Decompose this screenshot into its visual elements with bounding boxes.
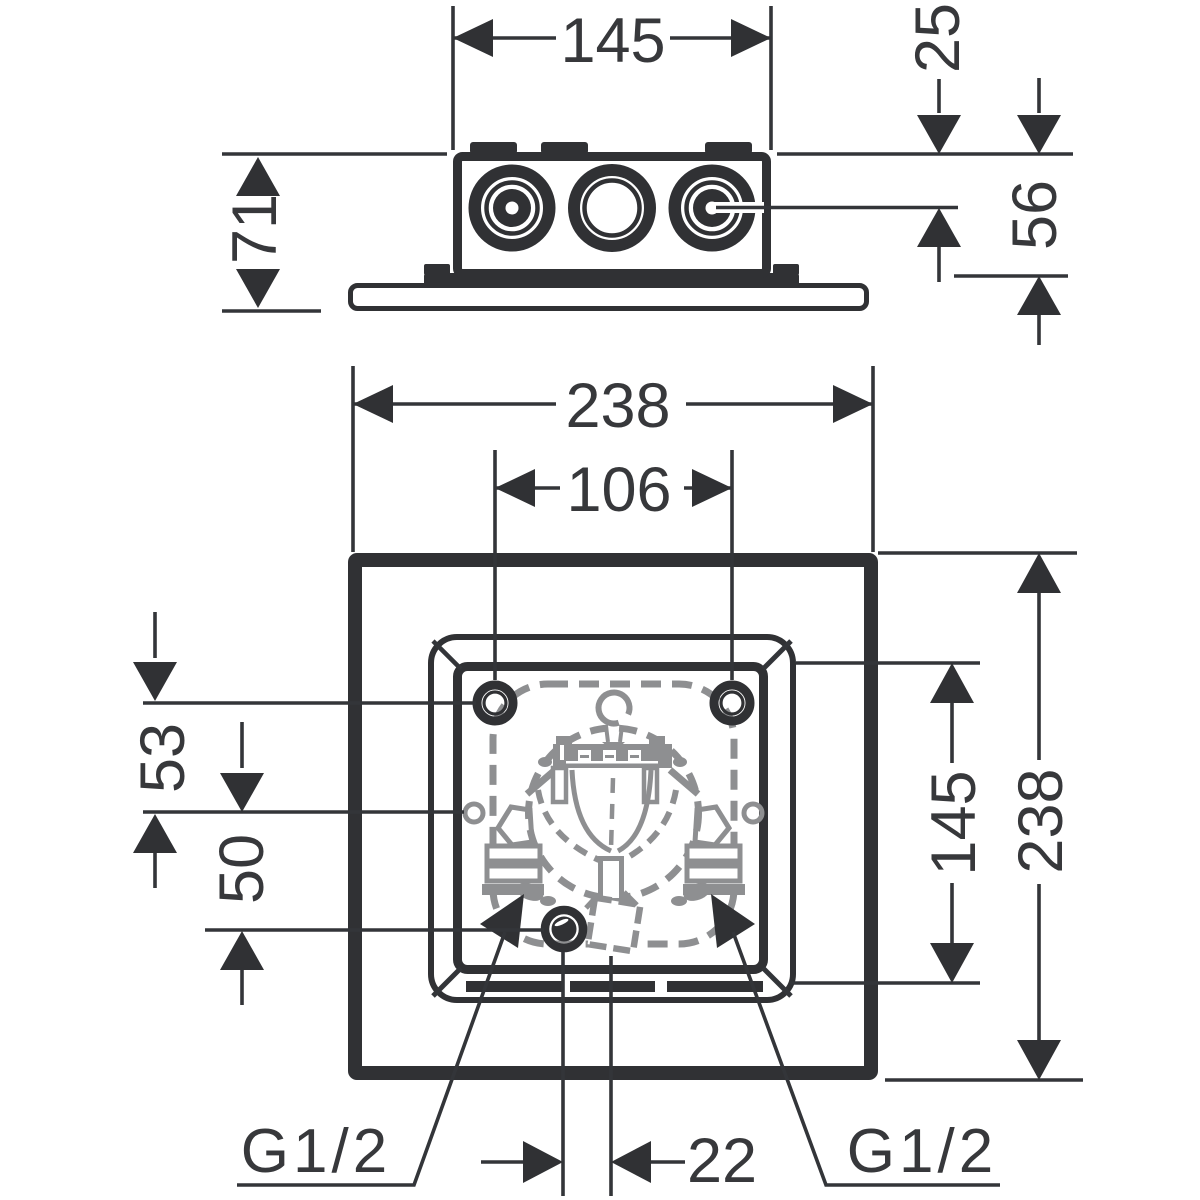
dimension 145 right arrow down	[930, 943, 974, 983]
SIDE VIEW	[220, 3, 1073, 345]
plaster box outer contour	[431, 637, 793, 1000]
dimension 50 arrow down	[220, 773, 264, 812]
dimension 53 lower stem	[153, 853, 157, 888]
dimension 238 top line	[353, 402, 873, 406]
left valve pentagon	[498, 807, 532, 845]
extension line right of 145	[769, 6, 773, 150]
right valve circle	[744, 804, 762, 822]
stem below small circle	[606, 726, 622, 742]
dimension 53 upper stem	[153, 612, 157, 658]
dimension 238 arrow right	[833, 385, 873, 423]
svg-text:238: 238	[565, 371, 670, 441]
dimension 22 arrow right-pointing	[523, 1141, 563, 1183]
crossbar	[553, 744, 672, 768]
middle port rings	[574, 170, 650, 246]
screw hole top-right	[714, 685, 750, 721]
svg-text:145: 145	[560, 6, 665, 76]
dimension 145 line	[453, 36, 771, 40]
dimension 22 tail left	[481, 1160, 527, 1164]
extension line right of 106	[730, 450, 734, 680]
right dims	[790, 553, 1083, 1080]
dimension 71 top reference line	[222, 152, 447, 156]
dimension 53 arrow up	[133, 814, 177, 853]
svg-text:G1/2: G1/2	[241, 1117, 391, 1186]
extension line left of 106	[493, 450, 497, 680]
dimension 56 arrow up	[1017, 276, 1061, 315]
svg-text:56: 56	[1000, 180, 1070, 250]
housing tab 3	[705, 142, 752, 154]
GHOST DETAIL (gray)	[465, 684, 762, 951]
bottom hole reference line	[205, 928, 544, 932]
right valve blobs	[681, 880, 713, 905]
white slit through right port	[712, 202, 764, 213]
dimension 50 lower stem	[240, 970, 244, 1005]
dimension 50 arrow up	[220, 931, 264, 970]
screw hole bottom	[545, 910, 583, 948]
housing box (side)	[458, 157, 767, 274]
left valve circle	[465, 804, 483, 822]
238 bottom reference line right	[885, 1078, 1083, 1082]
housing tab 2	[541, 142, 588, 154]
crossbar wing right	[670, 770, 698, 794]
left valve blobs	[514, 880, 546, 905]
bottom tab 2	[570, 981, 655, 992]
svg-text:145: 145	[919, 770, 989, 875]
screw holes	[477, 685, 750, 948]
svg-text:71: 71	[220, 194, 290, 264]
145 top reference line	[796, 661, 980, 665]
foot flange bar right tab	[773, 264, 799, 275]
chamfer top-left	[433, 641, 461, 669]
screw hole top-left	[477, 685, 513, 721]
left valve ladder	[487, 846, 540, 861]
dimension 25 lower stem	[937, 247, 941, 282]
chamfer bottom-left	[433, 968, 461, 996]
leg right	[644, 768, 657, 802]
dimension 71 arrow down	[236, 269, 280, 308]
22 extension line right	[609, 956, 613, 1196]
right valve pentagon	[695, 807, 729, 845]
stem wing left	[586, 895, 598, 908]
svg-text:G1/2: G1/2	[847, 1117, 997, 1186]
145 bottom reference line	[790, 981, 980, 985]
leg left	[553, 768, 566, 802]
22 extension line left	[561, 952, 565, 1196]
crossbar windows	[560, 745, 658, 764]
dimension 145 right arrow up	[930, 663, 974, 703]
dimension 71 arrow up	[236, 157, 280, 196]
crossbar end blobs	[538, 757, 552, 767]
dimension 22 arrow left-pointing	[611, 1141, 651, 1183]
left dims	[128, 612, 544, 1005]
extension line left of 238 top	[351, 366, 355, 552]
dimension 238 right line	[1037, 592, 1041, 1040]
plaster box inner frame	[458, 667, 764, 970]
dimension 56 stem	[1037, 78, 1041, 113]
G1/2 leader left	[237, 932, 505, 1185]
G1/2 pointer arrow left	[480, 894, 524, 948]
dimension 50 upper stem	[240, 722, 244, 768]
mounting frame outer square	[355, 560, 871, 1073]
right valve ladder	[687, 846, 740, 861]
funnel	[602, 742, 625, 752]
svg-text:238: 238	[1006, 768, 1076, 873]
dimension 53 arrow down	[133, 662, 177, 701]
pointers and lower dims	[237, 894, 1000, 1196]
crossbar wing left	[527, 770, 555, 794]
chamfer bottom-right	[763, 968, 791, 996]
top hole reference line	[143, 701, 476, 705]
goblet solid left	[572, 770, 611, 851]
dimension 56 lower stem	[1037, 315, 1041, 345]
extension line left of 145	[451, 6, 455, 150]
G1/2 pointer arrow right	[711, 894, 755, 948]
dimension 238 right arrow down	[1017, 1040, 1061, 1080]
dimension 25 arrow up	[917, 208, 961, 247]
stem wing right	[624, 892, 637, 905]
right port rings	[675, 171, 750, 246]
crossbar tab left	[556, 736, 572, 744]
dimension 22 tail right	[651, 1160, 685, 1164]
dimension 106 arrow left	[495, 469, 535, 507]
dimension 56 arrow down	[1017, 115, 1061, 154]
dimension 25 arrow down	[917, 115, 961, 154]
dimension 145 arrow right	[731, 19, 771, 57]
goblet dashed left	[538, 790, 599, 860]
goblet centerline	[611, 778, 613, 850]
baseplate (side)	[351, 286, 867, 309]
svg-text:53: 53	[128, 723, 198, 793]
box top reference line right	[777, 152, 1073, 156]
valve center reference line	[143, 810, 464, 814]
left port rings	[475, 171, 550, 246]
top small circle	[592, 686, 635, 729]
centerline to 56 dimension	[716, 206, 958, 210]
chamfer top-right	[763, 641, 791, 669]
foot flange bar	[424, 273, 799, 288]
dimension 106 arrow right	[692, 469, 732, 507]
goblet dashed right	[623, 790, 676, 860]
G1/2 leader right	[733, 932, 1000, 1185]
flange top reference line right	[954, 274, 1068, 278]
PLAN VIEW	[353, 366, 873, 1073]
foot flange bar left tab	[424, 264, 450, 275]
dimension 71 bottom reference line	[222, 309, 321, 313]
dimension 106 line	[495, 486, 732, 490]
dashed housing outline	[493, 684, 734, 944]
238 top reference line right	[878, 551, 1077, 555]
crossbar tab right	[649, 736, 665, 744]
dashed circular opening	[529, 728, 699, 898]
dimension 238 arrow left	[353, 385, 393, 423]
dimension 145 right line	[950, 700, 954, 946]
extension line right of 238 top	[871, 366, 875, 552]
stem rect	[601, 859, 622, 901]
housing tab 1	[470, 142, 517, 154]
svg-text:25: 25	[903, 3, 973, 73]
bottom square	[588, 898, 641, 952]
dimension 25 stem	[937, 79, 941, 113]
svg-text:22: 22	[687, 1126, 757, 1196]
dimension 238 right arrow up	[1017, 553, 1061, 593]
bottom tab 3	[667, 981, 763, 992]
svg-text:50: 50	[207, 834, 277, 904]
dimension 145 arrow left	[453, 19, 493, 57]
svg-text:106: 106	[566, 455, 671, 525]
bottom tab 1	[466, 981, 562, 992]
goblet solid right	[618, 770, 651, 851]
